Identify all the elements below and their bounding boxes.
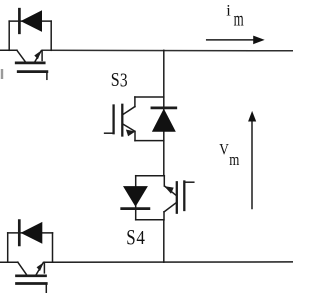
wire bottom rail left segment [0, 261, 18, 263]
emitter vertical [163, 176, 165, 186]
svg-text:4: 4 [136, 227, 145, 248]
diode D3 (on main wire, cathode up) [152, 108, 176, 132]
collector slant [18, 262, 27, 274]
cathode bar [122, 207, 149, 210]
emitter arrowhead [34, 50, 41, 59]
cathode bar [18, 9, 21, 33]
transistor Q2 (bottom-left IGBT, gate below rail) [17, 262, 47, 293]
diode D4 (left branch, cathode down) [122, 186, 149, 209]
collector vertical [134, 97, 136, 107]
emitter arrow shaft [123, 124, 135, 131]
cathode bar [152, 107, 176, 110]
transistor Q1 (top-left IGBT, gate below rail) [16, 50, 47, 79]
emitter vertical [134, 131, 136, 140]
anode triangle [21, 222, 43, 244]
gate terminal bar [112, 106, 114, 134]
node S3 loop [135, 97, 164, 141]
anode triangle [152, 109, 176, 132]
wire S3 loop bottom line [135, 140, 164, 142]
wire S4 loop top line [136, 175, 165, 177]
emitter arrow shaft [36, 263, 43, 275]
emitter arrowhead [164, 186, 173, 194]
wire top rail left segment [0, 49, 17, 51]
cathode bar [18, 221, 21, 245]
wire S3 loop top line [135, 96, 164, 98]
label S3 [111, 68, 120, 90]
wire loop right vertical [52, 233, 54, 262]
collector slant [164, 202, 177, 212]
wire diode horizontal [9, 20, 51, 22]
gate terminal lead [184, 181, 194, 183]
svg-text:S: S [111, 68, 120, 90]
svg-text:i: i [226, 2, 231, 20]
gate terminal bar [183, 182, 185, 211]
emitter arrowhead [37, 262, 44, 271]
arrow i_m (current, pointing right) [207, 36, 265, 45]
wire S4 loop bottom line [136, 219, 164, 221]
transistor S3 IGBT (gate at left) [105, 97, 136, 141]
anode triangle [123, 186, 148, 207]
diode D1 (anti-parallel with Q1) [9, 9, 51, 50]
gate lead stub [46, 72, 48, 80]
channel bar [16, 62, 44, 65]
diode D2 (anti-parallel with Q2) [8, 221, 53, 263]
anode triangle [21, 10, 42, 32]
emitter vertical [43, 262, 45, 273]
emitter arrow shaft [165, 187, 176, 196]
label V_m [219, 142, 229, 159]
emitter arrowhead [126, 130, 135, 137]
wire S4 loop left vertical [135, 176, 137, 220]
wire loop right vertical [50, 21, 52, 50]
gate bar [18, 70, 47, 73]
wire loop left vertical [8, 21, 10, 50]
label i_m [226, 2, 231, 20]
gate channel bar [121, 105, 123, 136]
svg-text:m: m [234, 8, 244, 30]
emitter vertical [41, 50, 43, 60]
transistor S4 IGBT (gate at right, emitter up) [164, 176, 194, 220]
gate terminal lead [105, 132, 114, 134]
collector slant [17, 50, 25, 61]
wire loop left vertical [7, 233, 9, 262]
node cut-off label at left edge [1, 69, 3, 79]
wire middle branch lower [163, 220, 165, 262]
gate lead stub [45, 284, 47, 293]
svg-text:m: m [229, 150, 239, 169]
collector vertical [163, 212, 165, 220]
label S4 [126, 225, 135, 250]
wire middle branch upper [163, 50, 165, 175]
node S4 loop [136, 176, 165, 220]
emitter arrow shaft [35, 51, 41, 62]
collector slant [123, 107, 135, 115]
arrow V_m (voltage, pointing up) [248, 111, 256, 209]
wire bottom rail right segment [44, 261, 293, 263]
gate bar [17, 282, 47, 285]
gate channel bar [176, 182, 178, 212]
channel bar [17, 274, 46, 277]
svg-text:V: V [219, 142, 229, 159]
wire top rail right segment [42, 49, 293, 52]
svg-text:3: 3 [120, 68, 128, 90]
wire diode horizontal [8, 232, 53, 234]
svg-text:S: S [126, 225, 135, 250]
